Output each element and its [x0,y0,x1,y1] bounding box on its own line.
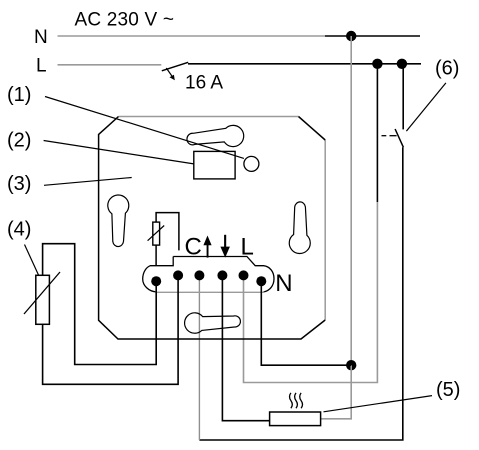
svg-text:16 A: 16 A [185,73,223,94]
terminal block bottom edge [155,291,265,293]
mounting keyhole right [289,202,310,254]
arrow down [220,235,230,258]
svg-text:(1): (1) [7,84,31,106]
wire L line gray [58,64,162,66]
switch 16A trip arrow [166,68,175,80]
wire terminal 4 to heater left [222,275,269,420]
thermostat body (3) outline black edges [99,117,326,340]
svg-text:(5): (5) [436,379,460,401]
leader line (2) to display window [44,141,194,164]
leader line (5) to heater [324,396,433,412]
svg-text:L: L [36,56,47,77]
terminal dot 5 [239,270,249,280]
wire terminal 2 to sensor bottom [43,275,179,384]
svg-text:(2): (2) [7,129,31,151]
mounting keyhole top [187,125,244,146]
svg-text:(3): (3) [7,173,31,195]
svg-text:N: N [275,270,292,297]
node L junction A [372,59,382,69]
svg-text:(4): (4) [7,218,31,240]
wire terminal 6 to junction [261,281,351,365]
display window (2) [194,151,235,179]
leader line (3) to body [44,178,132,186]
internal trimmer diagonal [148,226,165,241]
wire from L junction B down to switch 6 [402,64,404,130]
terminal dot 2 [173,270,183,280]
sensor (4) body [36,275,50,324]
mounting keyhole left [108,195,129,247]
leader line to switch (6) [406,83,446,131]
wire terminal 3 riser [198,275,200,440]
wire L line black [188,63,421,65]
switch 16A blade [162,62,188,71]
arrow up [203,236,211,258]
mounting keyhole bottom [185,313,241,333]
thermostat body (3) outline gray edges [119,117,326,321]
terminal dot 3 [194,270,204,280]
node L junction B [397,59,407,69]
wire N vertical drop [350,36,352,365]
leader line (1) to knob [45,97,244,159]
terminal dot 6 [256,276,266,286]
terminal dot 1 [151,276,161,286]
wire N line black right [325,35,420,37]
internal trimmer bottom wire [155,245,157,266]
wire N line gray [58,35,326,37]
heater (5) body [270,412,321,426]
wire from L junction A down (black upper part) [376,64,378,202]
svg-text:N: N [34,27,48,48]
internal trimmer loop wire [156,213,179,251]
sensor (4) diagonal [24,272,60,314]
node heater junction [346,360,356,370]
internal trimmer body [153,222,160,245]
svg-text:(6): (6) [435,58,459,80]
wire from L junction A down (gray lower part) [244,202,378,383]
heater steam squiggles [289,393,302,408]
svg-text:AC 230 V ~: AC 230 V ~ [75,9,175,30]
terminal block outline [143,257,274,292]
wire junction to heater right [321,365,352,419]
node N junction [346,31,356,41]
wire terminal 1 to sensor loop [43,244,157,365]
knob (1) [244,156,259,171]
leader line (4) to sensor [25,245,39,276]
switch 6 blade [395,129,403,147]
switch 6 linkage dashes [382,135,397,137]
terminal dot 4 [217,270,227,280]
wire from switch 6 down and along bottom [199,147,402,440]
